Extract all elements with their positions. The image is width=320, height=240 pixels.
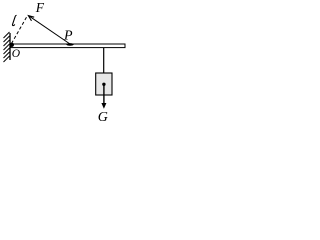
P junction mark on beam	[66, 43, 74, 46]
arrowhead of G	[101, 103, 106, 109]
svg-text:O: O	[12, 48, 21, 60]
background	[0, 0, 128, 128]
wall line	[9, 33, 11, 60]
svg-text:G: G	[98, 110, 108, 125]
pivot dot O	[10, 43, 14, 47]
weight box	[96, 73, 112, 95]
label l	[12, 15, 16, 25]
beam (lever bar)	[11, 44, 126, 48]
dashed moment arm l	[12, 16, 28, 44]
force F line from P	[30, 16, 71, 44]
center of gravity dot	[102, 83, 105, 86]
hanger cord	[103, 48, 105, 73]
arrowhead of F	[28, 16, 34, 21]
wall hatching	[4, 32, 10, 62]
svg-text:P: P	[63, 29, 73, 44]
svg-text:F: F	[35, 0, 45, 15]
arrow G shaft	[103, 84, 105, 104]
